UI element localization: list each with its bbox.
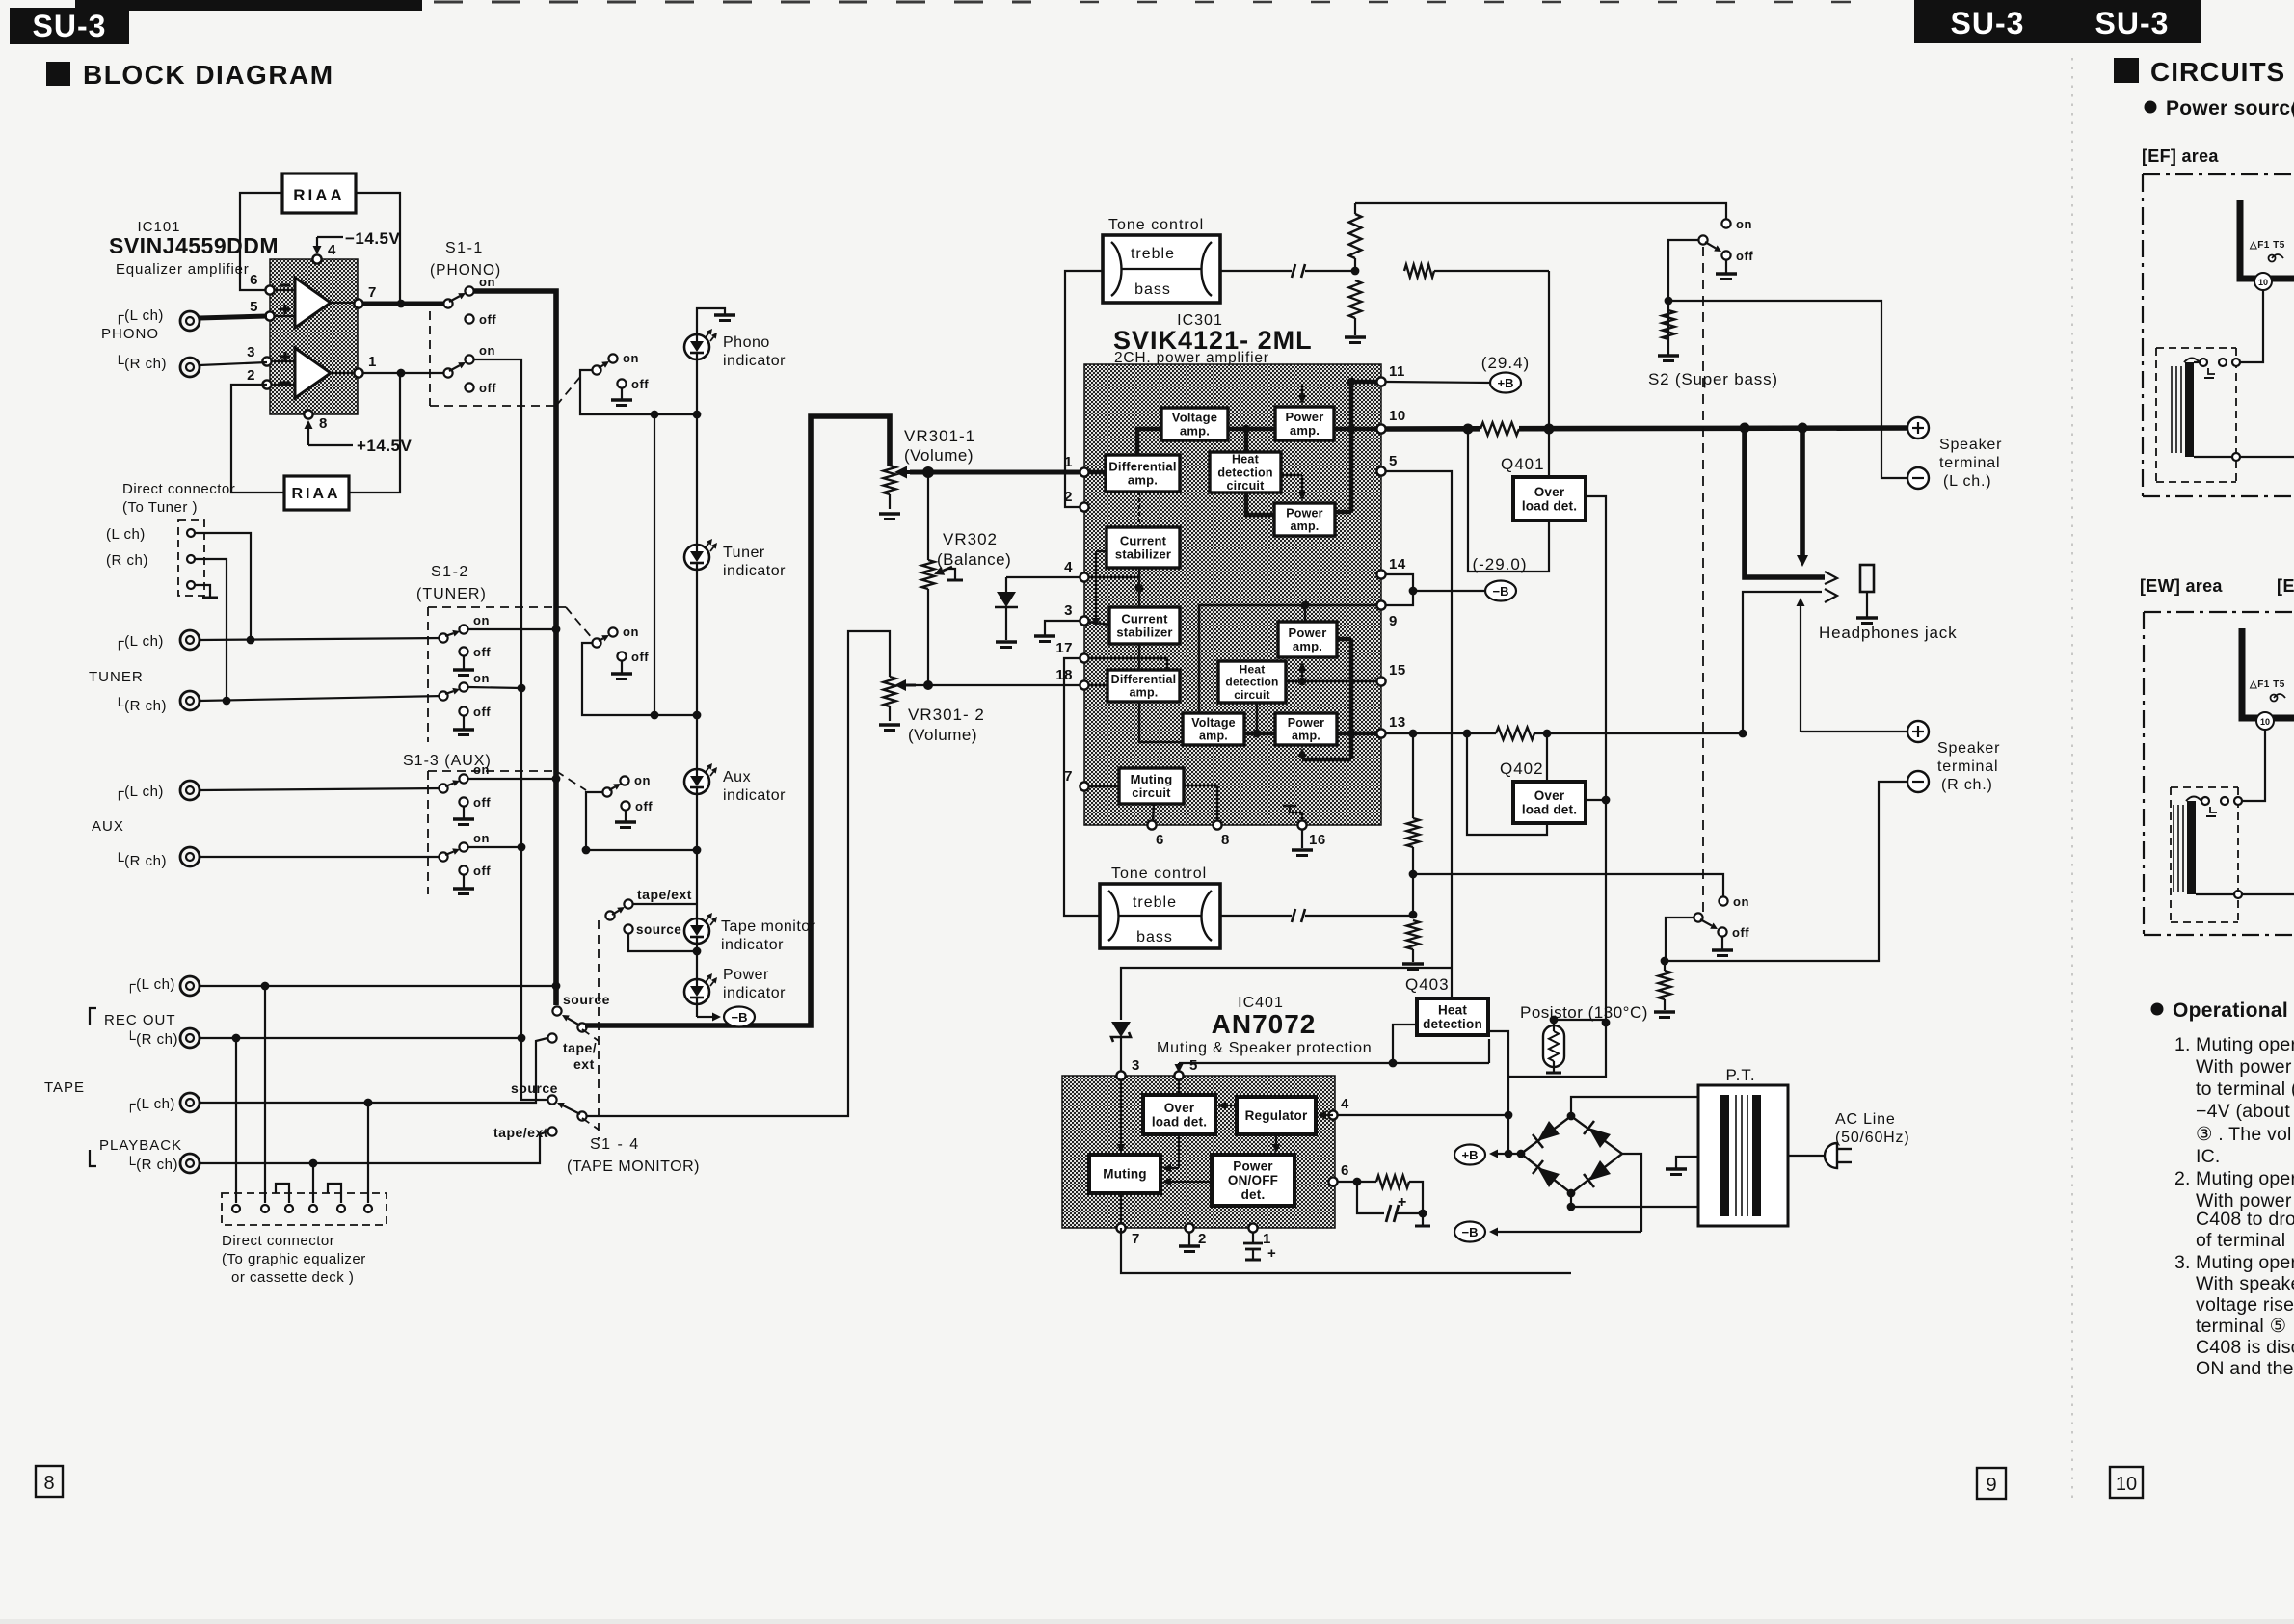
S1-4 upper tape/ext contact bbox=[547, 1033, 556, 1042]
svg-text:3: 3 bbox=[1064, 602, 1073, 619]
svg-text:VR301-1: VR301-1 bbox=[904, 427, 975, 445]
REC OUT L connector bbox=[180, 976, 200, 996]
wire RIAA2 right up to pin1 line bbox=[349, 373, 400, 493]
svg-text:(R ch): (R ch) bbox=[106, 552, 148, 569]
svg-text:Muting & Speaker protection: Muting & Speaker protection bbox=[1157, 1040, 1373, 1056]
Heat detection circuit box 2 bbox=[1218, 661, 1286, 703]
resistor chain below pin13 bbox=[1412, 733, 1414, 818]
IC401 regulator box bbox=[1237, 1097, 1316, 1134]
svg-text:(TAPE MONITOR): (TAPE MONITOR) bbox=[567, 1158, 700, 1175]
svg-text:With speaker: With speaker bbox=[2196, 1273, 2294, 1294]
svg-text:on: on bbox=[1736, 217, 1752, 231]
Q402 right link bbox=[1586, 799, 1606, 801]
wire thick source bus to volume bbox=[585, 416, 890, 1025]
S1-3 linkage dashes bbox=[428, 770, 556, 772]
S2 linkage dashed bbox=[1702, 247, 1704, 914]
pin5 sense line bbox=[1386, 471, 1452, 968]
headphones jack body bbox=[1860, 565, 1874, 592]
pin5 arrow into overload det bbox=[1178, 1063, 1180, 1064]
P.T. transformer box bbox=[1698, 1085, 1788, 1226]
VR301-2 wiper bbox=[906, 684, 916, 687]
svg-text:bass: bass bbox=[1136, 929, 1173, 945]
svg-text:tape/ext: tape/ext bbox=[637, 887, 692, 902]
svg-text:15: 15 bbox=[1389, 662, 1406, 679]
wire pin18 into diff2 bbox=[1080, 684, 1107, 686]
svg-text:Headphones jack: Headphones jack bbox=[1819, 624, 1957, 642]
op-amp A1 input stubs bbox=[274, 289, 295, 291]
speaker terminal minus R bbox=[1907, 771, 1929, 792]
IC101 gray block bbox=[270, 259, 358, 414]
svg-text:└(R ch): └(R ch) bbox=[125, 1030, 178, 1048]
svg-text:amp.: amp. bbox=[1293, 639, 1322, 653]
svg-text:2: 2 bbox=[247, 367, 255, 384]
svg-text:9: 9 bbox=[1389, 613, 1398, 629]
S1-3 upper off bbox=[459, 797, 467, 806]
direct connector contacts bbox=[187, 529, 195, 537]
EF inner dashed box bbox=[2156, 347, 2236, 349]
wire heat2 to pin15 bbox=[1286, 680, 1376, 682]
svg-text:amp.: amp. bbox=[1290, 423, 1320, 438]
wire diff1 to voltage amp (thick) bbox=[1137, 429, 1161, 455]
svg-text:3.: 3. bbox=[2174, 1252, 2191, 1273]
headphones jack R contact bbox=[1825, 589, 1837, 602]
svg-text:load det.: load det. bbox=[1522, 499, 1577, 514]
Aux LED bbox=[684, 769, 709, 794]
svg-text:14: 14 bbox=[1389, 556, 1406, 572]
svg-text:off: off bbox=[473, 795, 491, 810]
svg-text:Power: Power bbox=[723, 967, 769, 983]
svg-text:4: 4 bbox=[328, 242, 336, 258]
pin 8 of IC101 bbox=[304, 410, 312, 418]
pin 4 of IC101 bbox=[312, 254, 321, 263]
tuner indicator off bbox=[617, 652, 626, 660]
svg-text:+B: +B bbox=[1498, 376, 1514, 390]
svg-text:1.: 1. bbox=[2174, 1034, 2191, 1055]
pin4 line bbox=[1338, 1114, 1508, 1116]
wire pin4 into block bbox=[1080, 576, 1139, 578]
Q402 bottom loop bbox=[1467, 733, 1547, 835]
svg-text:RIAA: RIAA bbox=[293, 186, 345, 204]
svg-text:4: 4 bbox=[1341, 1096, 1349, 1112]
PLAYBACK L connector bbox=[180, 1093, 200, 1112]
S1-3 lower off bbox=[459, 865, 467, 874]
svg-text:3: 3 bbox=[1132, 1057, 1140, 1074]
svg-text:8: 8 bbox=[1221, 832, 1230, 848]
svg-text:Over: Over bbox=[1534, 788, 1565, 803]
pin16 inner stub bbox=[1290, 806, 1302, 821]
svg-text:△F1 T5: △F1 T5 bbox=[2249, 240, 2285, 251]
svg-text:PLAYBACK: PLAYBACK bbox=[99, 1137, 182, 1154]
S2 upper wire bbox=[1668, 240, 1698, 339]
svg-text:10: 10 bbox=[2260, 717, 2270, 727]
EF transformer bottom wire bbox=[2194, 456, 2232, 458]
svg-text:indicator: indicator bbox=[723, 787, 786, 804]
pin 18 IC301 bbox=[1080, 680, 1088, 689]
EW transformer bottom wire bbox=[2196, 893, 2234, 895]
S2 lower pivot bbox=[1694, 913, 1702, 921]
S1-4 lower tape/ext contact bbox=[547, 1127, 556, 1135]
Q403 left link bbox=[1393, 1025, 1417, 1063]
svg-text:4: 4 bbox=[1064, 559, 1073, 575]
svg-text:Current: Current bbox=[1121, 611, 1168, 626]
svg-text:−B: −B bbox=[1462, 1225, 1479, 1239]
bridge rectifier diamond bbox=[1521, 1116, 1622, 1193]
svg-text:Tone control: Tone control bbox=[1111, 865, 1207, 882]
Q403 top link bbox=[1451, 968, 1453, 998]
svg-text:tape/: tape/ bbox=[563, 1040, 597, 1055]
pin 2 IC401 bbox=[1185, 1223, 1193, 1232]
resistor to overload node bbox=[1404, 265, 1434, 278]
svg-text:Differential: Differential bbox=[1111, 673, 1177, 686]
wire tone2 cap to node bbox=[1305, 915, 1413, 917]
pin 5 IC301 bbox=[1376, 466, 1385, 475]
svg-text:┌(L ch): ┌(L ch) bbox=[125, 1096, 175, 1113]
Operational bullet heading bbox=[2151, 1003, 2164, 1016]
S2 resistor bbox=[1663, 310, 1675, 339]
svg-text:circuit: circuit bbox=[1227, 479, 1266, 493]
svg-text:off: off bbox=[473, 864, 491, 878]
svg-text:+: + bbox=[1267, 1245, 1276, 1262]
pin 14 IC301 bbox=[1376, 570, 1385, 578]
svg-text:10: 10 bbox=[1389, 408, 1406, 424]
svg-text:┌(L ch): ┌(L ch) bbox=[114, 633, 164, 651]
wire tone1 cap to node bbox=[1305, 270, 1355, 272]
speaker terminal plus L bbox=[1907, 417, 1929, 439]
pin6 RC network bbox=[1338, 1181, 1376, 1183]
wire power amp2 riser (thick) bbox=[1335, 510, 1351, 515]
svg-text:Heat: Heat bbox=[1438, 1002, 1467, 1017]
AUX R connector bbox=[180, 847, 200, 866]
svg-text:2.: 2. bbox=[2174, 1168, 2191, 1189]
svg-text:Tuner: Tuner bbox=[723, 545, 765, 561]
S1-1 lower off contact bbox=[465, 383, 473, 391]
svg-text:AC Line: AC Line bbox=[1835, 1111, 1896, 1128]
svg-text:S1-2: S1-2 bbox=[431, 564, 469, 580]
pin 9 IC301 bbox=[1376, 600, 1385, 609]
svg-text:to terminal (: to terminal ( bbox=[2196, 1078, 2294, 1100]
svg-text:treble: treble bbox=[1133, 894, 1177, 911]
pin 6 IC401 bbox=[1328, 1177, 1337, 1185]
S2 upper pivot bbox=[1698, 235, 1707, 244]
svg-text:Muting opera: Muting opera bbox=[2196, 1168, 2294, 1189]
svg-text:indicator: indicator bbox=[723, 563, 786, 579]
svg-text:Power: Power bbox=[1286, 507, 1323, 520]
svg-text:Power source: Power source bbox=[2166, 97, 2294, 120]
svg-text:5: 5 bbox=[250, 299, 258, 315]
svg-text:−4V (about: −4V (about bbox=[2196, 1101, 2290, 1122]
svg-text:(Volume): (Volume) bbox=[904, 446, 974, 465]
pin 1 IC301 bbox=[1080, 467, 1088, 476]
svg-text:source: source bbox=[511, 1080, 558, 1096]
svg-text:9: 9 bbox=[1986, 1475, 1996, 1496]
svg-text:on: on bbox=[634, 773, 651, 787]
Current stabilizer box 2 bbox=[1109, 607, 1180, 644]
Heat detection circuit box 1 bbox=[1210, 452, 1281, 493]
pin 5 IC401 bbox=[1174, 1071, 1183, 1079]
svg-text:Muting opera: Muting opera bbox=[2196, 1252, 2294, 1273]
svg-text:off: off bbox=[479, 312, 496, 327]
CIRCUITS heading bbox=[2114, 58, 2139, 83]
pin 4 IC401 bbox=[1328, 1110, 1337, 1119]
tuner indicator wire bbox=[582, 643, 697, 715]
svg-text:Power: Power bbox=[1288, 716, 1325, 730]
BLOCK DIAGRAM heading bbox=[46, 62, 70, 86]
svg-text:Muting opera: Muting opera bbox=[2196, 1034, 2294, 1055]
svg-text:Q403: Q403 bbox=[1405, 975, 1450, 994]
svg-text:off: off bbox=[473, 705, 491, 719]
svg-text:└(R ch): └(R ch) bbox=[114, 355, 167, 372]
wire tone1 out bbox=[1220, 270, 1292, 272]
-B terminal (amp) bbox=[1386, 574, 1413, 605]
wire aux R to S1-3 bbox=[200, 856, 443, 858]
svg-text:on: on bbox=[473, 671, 490, 685]
pin3 ground stub bbox=[1045, 621, 1080, 636]
svg-text:indicator: indicator bbox=[721, 937, 784, 953]
IC401 gray block bbox=[1062, 1076, 1335, 1228]
Q403 heat detection box bbox=[1417, 998, 1488, 1035]
wire S2 to minus L terminal bbox=[1668, 301, 1907, 478]
S2 lower wire bbox=[1666, 918, 1694, 961]
svg-text:on: on bbox=[623, 625, 639, 639]
wire muting circuit links bbox=[1080, 785, 1119, 787]
S1-1 upper pole bbox=[443, 299, 452, 307]
Power LED bbox=[684, 979, 709, 1004]
S2 upper off contact bbox=[1721, 251, 1730, 259]
svg-text:(-29.0): (-29.0) bbox=[1472, 555, 1527, 573]
svg-text:Power: Power bbox=[1285, 410, 1323, 424]
RIAA box (top feedback) bbox=[282, 173, 356, 213]
wire pin1 to S1-1 bbox=[362, 372, 445, 374]
svg-text:on: on bbox=[1733, 894, 1749, 909]
EF wire top into area bbox=[2194, 361, 2200, 363]
svg-text:off: off bbox=[1732, 925, 1749, 940]
svg-text:17: 17 bbox=[1055, 640, 1073, 656]
EW fuse bbox=[2271, 695, 2278, 702]
pin 1 IC401 bbox=[1248, 1223, 1257, 1232]
REC OUT R connector bbox=[180, 1028, 200, 1048]
muting to pin7 wire bbox=[1120, 1193, 1122, 1224]
wire pin2 to RIAA2 bbox=[231, 385, 284, 493]
pin 2 IC301 bbox=[1080, 502, 1088, 511]
svg-text:off: off bbox=[635, 799, 653, 813]
IC301 gray block bbox=[1084, 364, 1381, 825]
SU-3 badge top-left bbox=[10, 8, 129, 44]
svg-text:Power: Power bbox=[1233, 1159, 1273, 1174]
svg-text:┌(L ch): ┌(L ch) bbox=[114, 307, 164, 325]
power onoff to muting arrow bbox=[1171, 1181, 1212, 1183]
S1-2 linkage dashes bbox=[428, 606, 566, 608]
thick arrow to jack switch bbox=[1800, 428, 1805, 555]
svg-text:on: on bbox=[479, 275, 495, 289]
svg-text:(Balance): (Balance) bbox=[937, 550, 1011, 569]
VR301-2 pot bbox=[884, 677, 896, 706]
svg-text:indicator: indicator bbox=[723, 353, 786, 369]
wire op-amp outputs bbox=[331, 302, 354, 304]
regulator to overload arrow bbox=[1226, 1105, 1237, 1106]
svg-text:Tone control: Tone control bbox=[1108, 217, 1204, 233]
speaker terminal plus R bbox=[1907, 721, 1929, 742]
Differential amp box 1 bbox=[1106, 455, 1180, 492]
wire RIAA1 right down to pin7 line bbox=[356, 193, 400, 304]
phono indicator switch off bbox=[617, 379, 626, 387]
svg-text:Q401: Q401 bbox=[1501, 455, 1545, 473]
headphones jack L contact bbox=[1825, 572, 1837, 584]
bridge diode bottom-left bbox=[1537, 1167, 1560, 1187]
wire phono R to pin3 bbox=[200, 362, 267, 365]
AC plug bbox=[1825, 1143, 1837, 1168]
pin 13 IC301 bbox=[1376, 729, 1385, 737]
Power amp box 4 bbox=[1275, 713, 1337, 745]
svg-text:└(R ch): └(R ch) bbox=[114, 852, 167, 869]
EF fuse bbox=[2269, 255, 2276, 262]
pin3 arrow into muting bbox=[1120, 1076, 1122, 1144]
pin 8 IC301 bbox=[1213, 820, 1221, 829]
svg-text:AN7072: AN7072 bbox=[1212, 1009, 1317, 1039]
wire direct R to tuner R bbox=[195, 559, 227, 701]
tuner indicator switch bbox=[592, 638, 600, 647]
pin7 rail bbox=[1121, 1228, 1571, 1273]
Tuner LED bbox=[684, 545, 709, 570]
wire tuner L to S1-2 bbox=[200, 638, 443, 640]
phono indicator ground bbox=[697, 308, 725, 334]
svg-text:1: 1 bbox=[1064, 454, 1073, 470]
svg-text:source: source bbox=[636, 922, 681, 937]
svg-text:off: off bbox=[1736, 249, 1753, 263]
wire pin17 to tone2 bbox=[1064, 658, 1100, 916]
IC401 power on/off det box bbox=[1212, 1155, 1294, 1206]
wire direct L to tuner L bbox=[195, 533, 251, 640]
op-amp A2 input stubs bbox=[274, 360, 295, 362]
svg-text:16: 16 bbox=[1309, 832, 1326, 848]
svg-text:circuit: circuit bbox=[1234, 688, 1269, 702]
resistor in speaker line bbox=[1480, 421, 1519, 436]
capacitor C tone2 bbox=[1292, 909, 1295, 922]
svg-text:Speaker: Speaker bbox=[1939, 437, 2002, 453]
bridge DC minus wire bbox=[1622, 1154, 1641, 1232]
Phono LED bbox=[684, 334, 709, 359]
resistor above tone1 node bbox=[1354, 203, 1356, 214]
svg-text:treble: treble bbox=[1131, 246, 1175, 262]
svg-text:REC OUT: REC OUT bbox=[104, 1012, 176, 1028]
wire pin3 into curstab2 bbox=[1080, 621, 1109, 625]
VR302 pot bbox=[922, 560, 935, 589]
S2 lower on contact bbox=[1719, 896, 1727, 905]
svg-text:on: on bbox=[479, 343, 495, 358]
tape monitor ind pivot bbox=[605, 911, 614, 919]
svg-text:2: 2 bbox=[1064, 489, 1073, 505]
aux indicator wire bbox=[586, 792, 697, 850]
svg-text:amp.: amp. bbox=[1128, 473, 1158, 488]
svg-text:┌(L ch): ┌(L ch) bbox=[125, 976, 175, 994]
pin 7 of IC101 bbox=[354, 299, 362, 307]
svg-text:8: 8 bbox=[43, 1473, 54, 1494]
svg-text:load det.: load det. bbox=[1522, 803, 1577, 817]
svg-text:└(R ch): └(R ch) bbox=[114, 697, 167, 714]
wire jack to speaker plus R bbox=[1800, 606, 1801, 732]
Power amp box 1 bbox=[1275, 407, 1334, 440]
resistor pin13 line bbox=[1496, 728, 1534, 740]
svg-text:stabilizer: stabilizer bbox=[1116, 626, 1172, 640]
wire power amp to pin10 (thick) bbox=[1334, 427, 1376, 432]
svg-text:(L ch): (L ch) bbox=[106, 526, 146, 543]
svg-text:Speaker: Speaker bbox=[1937, 740, 2000, 757]
wire curstab1 left loop bbox=[1096, 550, 1107, 552]
svg-text:−B: −B bbox=[1493, 584, 1509, 599]
P.T. core lines bbox=[1735, 1095, 1737, 1216]
svg-text:13: 13 bbox=[1389, 714, 1406, 731]
bridge diode top-left bbox=[1537, 1121, 1560, 1141]
svg-text:[EF] area: [EF] area bbox=[2142, 146, 2219, 166]
S1-1 lower pole bbox=[443, 368, 452, 377]
S1-1 linkage dashes bbox=[429, 311, 431, 406]
wire curstab2 to diff2 bbox=[1138, 644, 1140, 670]
Q401 bypass loop bbox=[1468, 429, 1549, 572]
svg-text:Equalizer amplifier: Equalizer amplifier bbox=[116, 261, 250, 278]
AC line to plug bbox=[1788, 1155, 1825, 1157]
arrow into power amp1 top bbox=[1301, 384, 1303, 395]
svg-text:CIRCUITS T: CIRCUITS T bbox=[2150, 57, 2294, 87]
svg-text:terminal: terminal bbox=[1937, 759, 1998, 775]
svg-text:TUNER: TUNER bbox=[89, 669, 144, 685]
wire voltage amp to power amp (thick) bbox=[1228, 427, 1275, 432]
wire curstab1 links bbox=[1138, 492, 1140, 527]
svg-text:off: off bbox=[631, 650, 649, 664]
wire minus R bbox=[1665, 782, 1907, 961]
resistor below tone1 node bbox=[1349, 280, 1362, 318]
svg-text:AUX: AUX bbox=[92, 818, 124, 835]
svg-text:voltage rise.: voltage rise. bbox=[2196, 1294, 2294, 1316]
wire thin bus to source bbox=[521, 1097, 547, 1100]
svg-text:det.: det. bbox=[1241, 1187, 1266, 1202]
svg-text:circuit: circuit bbox=[1132, 785, 1171, 800]
wire power3 riser (thick) bbox=[1337, 637, 1351, 642]
svg-text:+B: +B bbox=[1462, 1148, 1479, 1162]
svg-text:detection: detection bbox=[1423, 1017, 1482, 1031]
EW circle 10 bbox=[2256, 712, 2274, 730]
svg-text:amp.: amp. bbox=[1130, 686, 1159, 700]
wire S1-3 on L to thick bus bbox=[468, 778, 556, 780]
svg-text:6: 6 bbox=[1341, 1162, 1349, 1179]
pin 2 of IC101 bbox=[262, 380, 271, 388]
svg-text:③ . The vol: ③ . The vol bbox=[2196, 1124, 2292, 1145]
svg-text:Q402: Q402 bbox=[1500, 759, 1544, 778]
regulator down arrow bbox=[1275, 1134, 1277, 1144]
Tape monitor LED bbox=[684, 918, 709, 944]
wire tone2 out bbox=[1220, 915, 1292, 917]
wire heat det1 to power amp2 top arrow bbox=[1281, 474, 1302, 476]
phono indicator wire bbox=[580, 370, 697, 414]
svg-text:P.T.: P.T. bbox=[1725, 1066, 1755, 1084]
wire direct pins up bbox=[235, 1038, 237, 1203]
wire PLAYBACK R to tape/ext bbox=[200, 1131, 547, 1163]
+14.5V supply arrow bbox=[307, 429, 309, 445]
S1-1 upper off contact bbox=[465, 314, 473, 323]
svg-text:ON/OFF: ON/OFF bbox=[1228, 1173, 1278, 1187]
S1-2 upper off bbox=[459, 647, 467, 655]
svg-text:S2 (Super bass): S2 (Super bass) bbox=[1648, 370, 1778, 388]
SU-3 badges top-right bbox=[1914, 0, 2201, 43]
svg-text:Tape monitor: Tape monitor bbox=[721, 918, 816, 935]
pin 16 IC301 bbox=[1297, 820, 1306, 829]
TUNER L connector bbox=[180, 630, 200, 650]
svg-text:stabilizer: stabilizer bbox=[1115, 547, 1171, 562]
svg-text:S1-1: S1-1 bbox=[445, 240, 484, 256]
S1-2 lower off bbox=[459, 706, 467, 715]
pin 3 of IC101 bbox=[262, 357, 271, 365]
svg-text:ON and the v: ON and the v bbox=[2196, 1358, 2294, 1379]
page number 8 bbox=[36, 1466, 63, 1497]
svg-text:terminal ⑤: terminal ⑤ bbox=[2196, 1316, 2286, 1337]
